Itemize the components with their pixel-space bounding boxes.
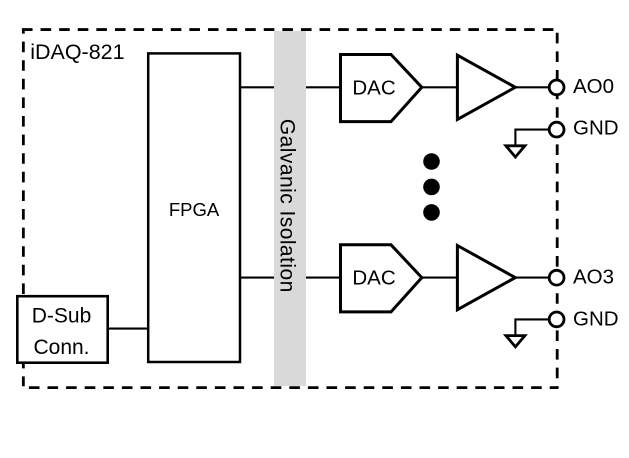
wire: amplifier to AO3 terminal [514, 277, 552, 279]
amplifier (channel AO3) [457, 246, 515, 310]
svg-text:D-Sub: D-Sub [32, 304, 92, 327]
svg-text:AO3: AO3 [573, 266, 614, 289]
svg-text:DAC: DAC [352, 76, 395, 99]
ground symbol (channel AO3) [506, 336, 525, 347]
svg-text:DAC: DAC [352, 267, 395, 290]
ground symbol (channel AO0) [506, 146, 525, 157]
svg-text:GND: GND [573, 307, 619, 330]
box: FPGA [148, 53, 240, 362]
svg-text:GND: GND [573, 117, 619, 140]
wire: D-Sub Conn. to FPGA [107, 328, 149, 330]
wire: DAC to amplifier (channel AO3) [421, 277, 459, 279]
svg-text:Conn.: Conn. [33, 336, 89, 359]
svg-text:Galvanic Isolation: Galvanic Isolation [276, 119, 299, 293]
wire: GND terminal to ground (channel AO0) [515, 130, 551, 146]
svg-text:AO0: AO0 [573, 75, 614, 98]
svg-text:iDAQ-821: iDAQ-821 [30, 40, 124, 64]
svg-text:FPGA: FPGA [169, 199, 220, 220]
galvanic isolation barrier bar [274, 31, 306, 386]
wire: FPGA to isolation barrier (channel AO3) [239, 277, 274, 279]
terminal GND (channel AO3) [549, 312, 564, 327]
terminal GND (channel AO0) [549, 122, 564, 137]
wire: GND terminal to ground (channel AO3) [515, 319, 551, 335]
wire: isolation barrier to DAC (channel AO0) [306, 86, 341, 88]
wire: FPGA to isolation barrier (channel AO0) [239, 86, 274, 88]
amplifier (channel AO0) [457, 55, 515, 119]
DAC converter (channel AO3) [341, 245, 422, 312]
ellipsis dots (channels AO1..AO2) [423, 153, 440, 221]
wire: amplifier to AO0 terminal [514, 86, 552, 88]
DAC converter (channel AO0) [341, 55, 422, 122]
terminal AO3 [549, 270, 564, 285]
enclosure dashed border (iDAQ-821 module boundary) [22, 30, 559, 388]
wire: isolation barrier to DAC (channel AO3) [306, 277, 341, 279]
wire: DAC to amplifier (channel AO0) [421, 86, 459, 88]
terminal AO0 [549, 80, 564, 95]
box: D-Sub connector [17, 296, 107, 363]
